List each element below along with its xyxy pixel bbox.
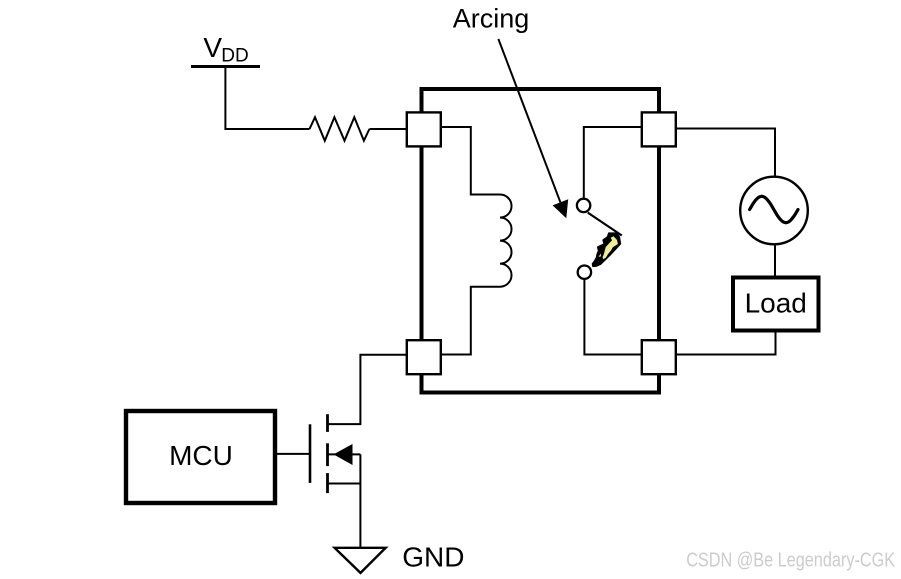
- wire AC to load: [774, 244, 776, 276]
- svg-text:CSDN @Be Legendary-CGK: CSDN @Be Legendary-CGK: [686, 550, 895, 572]
- wire load return: [676, 331, 776, 355]
- svg-text:V: V: [203, 32, 222, 63]
- switch moving contact (bottom): [578, 266, 591, 279]
- wire coil bottom: [441, 287, 500, 355]
- wire coil top: [441, 127, 500, 195]
- wire switch top: [584, 127, 642, 198]
- wire switch bottom: [584, 280, 641, 355]
- resistor R1: [310, 117, 370, 141]
- terminal pin 4 (bottom-right): [642, 340, 676, 374]
- svg-text:Arcing: Arcing: [453, 3, 530, 33]
- svg-text:GND: GND: [402, 541, 464, 572]
- AC source V1: [740, 177, 808, 245]
- annotation arrow: [498, 39, 568, 218]
- wire gate: [277, 453, 310, 455]
- load box: [733, 278, 819, 331]
- wire resistor to pin 1: [369, 128, 407, 130]
- svg-text:Load: Load: [745, 287, 807, 318]
- wire drain: [328, 355, 407, 424]
- ground: [335, 541, 465, 573]
- wire to AC source: [676, 129, 775, 178]
- MCU box: [126, 411, 275, 503]
- switch fixed contact (top): [577, 199, 590, 212]
- relay coil L1: [500, 195, 512, 287]
- switch blade: [588, 213, 622, 236]
- svg-text:MCU: MCU: [169, 440, 233, 471]
- svg-text:DD: DD: [221, 45, 248, 66]
- terminal pin 1 (top-left): [407, 112, 441, 146]
- MOSFET Q1: [310, 414, 360, 547]
- arcing spark bolt: [592, 233, 620, 267]
- power symbol VDD: [191, 32, 260, 66]
- relay box: [422, 89, 660, 393]
- terminal pin 3 (bottom-left): [407, 340, 441, 374]
- wire VDD down: [225, 67, 309, 130]
- terminal pin 2 (top-right): [642, 112, 676, 146]
